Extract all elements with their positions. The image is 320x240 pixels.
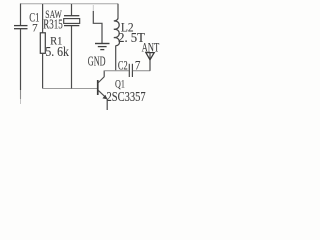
wire top rail (21, 3, 119, 5)
svg-text:2SC3357: 2SC3357 (107, 89, 146, 105)
wire R1 top lead (42, 4, 44, 33)
svg-text:R315: R315 (43, 16, 63, 31)
transistor Q1 (97, 77, 146, 105)
wire R1 bottom lead (42, 53, 44, 88)
svg-text:ANT: ANT (142, 42, 160, 55)
SAW resonator X1 (crystal symbol) (64, 4, 80, 26)
wire L2 bottom lead (115, 46, 117, 71)
svg-text:GND: GND (88, 55, 106, 70)
svg-text:5. 6k: 5. 6k (45, 44, 69, 59)
capacitor C2 (118, 58, 141, 77)
svg-text:C2: C2 (118, 59, 128, 73)
inductor L2 (114, 18, 145, 46)
svg-text:7: 7 (32, 22, 38, 34)
wire antenna stem (149, 53, 151, 71)
wire C2 to antenna (133, 70, 150, 72)
wire L2 top lead (117, 4, 119, 19)
SAW resonator X1 label (43, 9, 63, 32)
capacitor C1 (14, 11, 39, 34)
wire GND jog (92, 5, 94, 12)
wire base (43, 88, 97, 90)
wire C1 top lead (20, 4, 22, 26)
ground (88, 44, 110, 70)
wire collector lead (103, 71, 105, 77)
antenna ANT (142, 42, 160, 59)
wire C1 bottom lead (20, 29, 22, 90)
wire collector to C2 (104, 70, 129, 72)
wire crystal bottom lead (71, 26, 73, 89)
wire emitter lead (106, 99, 108, 111)
resistor R1 (40, 33, 69, 59)
